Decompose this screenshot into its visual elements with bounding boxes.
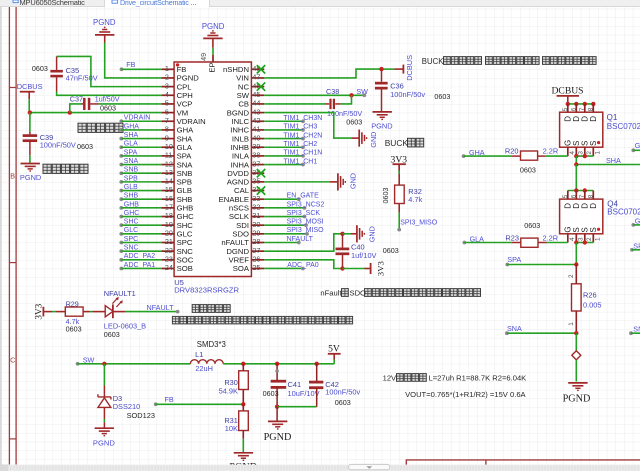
- capacitor C37: [81, 98, 99, 110]
- junction C40 top: [340, 232, 344, 236]
- svg-text:PGND: PGND: [264, 432, 292, 443]
- svg-text:SDO: SDO: [350, 288, 367, 297]
- svg-text:EP: EP: [208, 62, 217, 72]
- zone letter B: [10, 172, 15, 181]
- svg-text:BUCK: BUCK: [422, 57, 444, 66]
- note BUCK的地: [385, 138, 424, 148]
- U5 pin 45 SW: [237, 90, 265, 100]
- svg-text:S: S: [589, 227, 598, 232]
- svg-text:3V3: 3V3: [34, 303, 44, 319]
- svg-text:DVDD: DVDD: [227, 169, 249, 178]
- R20 value 2.2R: [543, 147, 559, 156]
- svg-text:0.005: 0.005: [583, 301, 602, 310]
- svg-text:INLA: INLA: [232, 152, 250, 161]
- svg-text:12: 12: [165, 159, 173, 168]
- svg-text:MPU6050Schematic: MPU6050Schematic: [20, 0, 86, 7]
- C40 value 1uf/10V: [351, 251, 377, 260]
- junction SW/C38: [349, 93, 353, 97]
- note nFault/SDO open drain: [320, 288, 480, 297]
- U5 pin 18 GHC: [161, 211, 194, 221]
- U5 pin 21 SPC: [161, 237, 193, 247]
- note 注意耐压值 (upper): [78, 123, 123, 132]
- svg-text:nFault: nFault: [320, 288, 342, 297]
- wire SPB: [121, 181, 161, 183]
- capacitor C41: [271, 381, 287, 407]
- LED footprint 0603: [104, 330, 120, 339]
- svg-text:24: 24: [165, 263, 173, 272]
- zone letter C: [10, 356, 15, 365]
- net label SPI3_MOSI: [287, 219, 324, 226]
- svg-text:1uf/50V: 1uf/50V: [95, 95, 120, 104]
- R26 pin 1 number: [568, 322, 575, 326]
- svg-text:5V: 5V: [328, 343, 340, 354]
- wire GHC: [121, 216, 161, 218]
- svg-text:GND: GND: [348, 173, 357, 189]
- C42 footprint 0603: [335, 398, 351, 407]
- wire R32 to SPI3_MISO: [397, 204, 401, 232]
- net label SPI3_SCK: [287, 210, 321, 217]
- wire VDRAIN: [121, 120, 161, 122]
- svg-text:nSHDN: nSHDN: [223, 65, 249, 74]
- wire C35 top to CPL pin3: [57, 56, 162, 86]
- svg-text:PGND: PGND: [563, 394, 591, 405]
- svg-text:30: 30: [252, 220, 260, 229]
- svg-text:27: 27: [252, 246, 260, 255]
- U5 pin 13 SNB: [161, 168, 192, 178]
- U5 pin 37 INHA: [231, 159, 265, 169]
- svg-text:SPI3_MOSI: SPI3_MOSI: [287, 219, 324, 226]
- svg-text:TIM1_CH2N: TIM1_CH2N: [283, 132, 322, 139]
- note SMD3*3: [197, 340, 226, 349]
- U5 designator: [174, 278, 184, 287]
- net label SPI3_MISO: [287, 227, 325, 234]
- capacitor C40: [336, 234, 350, 269]
- net label SHA: [606, 156, 621, 165]
- svg-text:47: 47: [252, 73, 260, 82]
- svg-text:INHA: INHA: [231, 160, 250, 169]
- svg-text:TIM1_CH3N: TIM1_CH3N: [283, 115, 322, 122]
- title block top-left corner: [406, 460, 640, 466]
- svg-text:SOA: SOA: [233, 264, 250, 273]
- U5 pin 20 GLC: [161, 229, 193, 239]
- resistor R32: [395, 185, 405, 203]
- bottom scrollbar: [0, 464, 640, 471]
- R29 value 4.7k: [66, 317, 80, 326]
- wire R30 to FB node: [242, 390, 244, 405]
- svg-text:SN: SN: [633, 325, 640, 334]
- svg-text:NC: NC: [238, 82, 250, 91]
- power DCBUS (left): [17, 82, 43, 99]
- junction SPA/R26: [574, 262, 578, 266]
- svg-text:BSC0702: BSC0702: [607, 207, 640, 216]
- net label EN_GATE: [287, 193, 319, 200]
- svg-text:PGND: PGND: [371, 122, 392, 131]
- U5 pin 49 EP: [199, 53, 216, 73]
- C36 value 100nF/50v: [390, 90, 425, 99]
- svg-text:SPI3_MISO: SPI3_MISO: [400, 220, 438, 227]
- svg-text:GHA: GHA: [177, 126, 195, 135]
- svg-text:C38: C38: [326, 87, 339, 96]
- wire VIN pin47 to DCBUS node: [264, 69, 381, 78]
- wire SPI3_MOSI: [264, 223, 308, 227]
- note 如果灯灭...: [172, 316, 352, 324]
- svg-text:23: 23: [165, 255, 173, 264]
- net label SW (pin45): [356, 87, 368, 97]
- svg-text:BUCK: BUCK: [385, 138, 409, 148]
- Q4 pin names D D D D / G S S S: [563, 203, 598, 233]
- svg-text:Q1: Q1: [607, 113, 618, 122]
- ground GND (BGND): [351, 130, 378, 148]
- svg-text:6: 6: [570, 194, 577, 198]
- svg-text:0603: 0603: [335, 398, 351, 407]
- U5 pin 38 INLA: [232, 151, 264, 161]
- wire SNC: [121, 250, 161, 252]
- C35 designator: [66, 66, 80, 75]
- wire SNA: [121, 164, 161, 166]
- svg-text:3: 3: [577, 237, 584, 241]
- svg-text:31: 31: [252, 211, 260, 220]
- svg-text:R26: R26: [583, 291, 597, 300]
- wire to 3V3 (VREF): [343, 268, 365, 270]
- U5 pin 19 SHC: [161, 220, 193, 230]
- svg-text:SOB: SOB: [177, 264, 193, 273]
- wire EN_GATE: [264, 197, 300, 201]
- capacitor C42: [309, 364, 323, 407]
- svg-text:FB: FB: [165, 395, 174, 404]
- net label TIM1_CH2N: [283, 132, 322, 139]
- svg-text:TIM1_CH3: TIM1_CH3: [283, 124, 317, 131]
- svg-text:GL: GL: [635, 216, 640, 225]
- svg-text:INLB: INLB: [232, 134, 249, 143]
- net label GHC (U5 left): [119, 210, 139, 219]
- U5 pin 31 SCLK: [229, 211, 264, 221]
- wire C37 branch: [70, 104, 81, 113]
- U5 pin 28 nFAULT: [221, 237, 264, 247]
- wire C39 to ground: [29, 155, 31, 163]
- wire SPA: [121, 155, 161, 157]
- resistor R26 (shunt): [572, 284, 582, 311]
- ground GND (DGND): [343, 225, 377, 242]
- svg-text:7: 7: [579, 194, 586, 198]
- LED value LED-0603_B: [104, 322, 146, 331]
- U5 pin 36 DVDD: [227, 168, 264, 178]
- wire SHC: [121, 224, 161, 226]
- svg-text:2: 2: [568, 274, 575, 278]
- svg-text:PGND: PGND: [93, 18, 116, 27]
- wire TIM1_CH3N: [264, 119, 305, 123]
- junction C41 bottom: [275, 405, 279, 409]
- svg-text:GND: GND: [367, 226, 376, 242]
- svg-text:INHB: INHB: [231, 143, 249, 152]
- svg-text:19: 19: [165, 220, 173, 229]
- svg-text:SW: SW: [237, 91, 250, 100]
- U5 pin 26 VREF: [228, 255, 264, 265]
- U5 pin 3 CPL: [161, 81, 192, 91]
- wire FB to R31: [242, 404, 244, 411]
- svg-text:26: 26: [252, 255, 260, 264]
- svg-text:0603: 0603: [383, 246, 399, 255]
- svg-text:L=27uh R1=88.7K R2=6.04K: L=27uh R1=88.7K R2=6.04K: [429, 373, 527, 382]
- svg-text:4: 4: [569, 151, 576, 155]
- wire BGND pin43 to GND: [264, 113, 351, 139]
- U5 pin 24 SOB: [161, 263, 193, 273]
- no-connect X pin46: [257, 82, 265, 90]
- U5 pin 25 SOA: [233, 263, 265, 273]
- wire DCBUS to C39: [29, 113, 31, 132]
- U5 pin 12 SNA: [161, 159, 193, 169]
- U5 pin 23 SOC: [161, 255, 193, 265]
- svg-text:SOD123: SOD123: [127, 411, 155, 420]
- net label SNC (U5 left): [119, 245, 138, 254]
- note VOUT formula: [405, 390, 526, 399]
- svg-text:SHA: SHA: [177, 134, 194, 143]
- svg-text:9: 9: [165, 133, 169, 142]
- wire SW pin45: [264, 94, 364, 96]
- wire SHA: [121, 138, 161, 140]
- svg-text:R29: R29: [66, 299, 79, 308]
- svg-text:8: 8: [587, 194, 594, 198]
- wire TIM1_CH2: [264, 145, 305, 149]
- wire ADC_PA1: [121, 267, 161, 269]
- wire C41 to C42 bottom: [277, 406, 317, 408]
- wire LED to NFAULT: [126, 310, 180, 314]
- net label GLB (U5 left): [119, 184, 138, 193]
- net label FB (divider): [154, 395, 174, 406]
- svg-text:5: 5: [562, 194, 569, 198]
- svg-text:2: 2: [586, 237, 593, 241]
- wire DCBUS to Q1 drains: [567, 103, 593, 105]
- wire CB pin44 to C38: [264, 103, 325, 105]
- wire Q4 source to SPA junction: [575, 243, 577, 265]
- svg-text:EN_GATE: EN_GATE: [287, 193, 319, 200]
- svg-text:DCBUS: DCBUS: [552, 85, 584, 96]
- svg-text:SNC: SNC: [177, 247, 194, 256]
- net label SHA (U5 left): [119, 132, 138, 141]
- wire diamond to PGND: [575, 360, 577, 382]
- C37 footprint 0603: [100, 104, 116, 113]
- U5 pin 35 AGND: [227, 177, 265, 187]
- junction Q1 drain bus: [566, 102, 596, 106]
- svg-text:L1: L1: [195, 350, 203, 359]
- wire VREF pin26 to C40 bottom: [264, 260, 342, 269]
- U5 pin 4 CPH: [161, 90, 193, 100]
- svg-text:GND: GND: [369, 132, 378, 148]
- power DCBUS (rotated, near C36): [394, 55, 414, 81]
- power 3V3 (rotated, left): [34, 303, 52, 319]
- junction C40 bottom: [340, 266, 344, 270]
- svg-text:DSS210: DSS210: [113, 402, 141, 411]
- net label SPB (U5 left): [119, 175, 138, 184]
- C41 value 10uF/10V: [288, 389, 320, 398]
- svg-text:SOC: SOC: [177, 256, 194, 265]
- net label SW (buck): [76, 355, 95, 365]
- R23 designator: [505, 234, 519, 243]
- svg-text:7: 7: [579, 107, 586, 111]
- svg-text:38: 38: [252, 151, 260, 160]
- svg-text:DCBUS: DCBUS: [17, 82, 43, 91]
- svg-text:nSCS: nSCS: [229, 204, 249, 213]
- junction C42 tap: [315, 362, 319, 366]
- wire FB: [156, 403, 244, 405]
- svg-text:GLA: GLA: [177, 143, 193, 152]
- C40 footprint 0603: [383, 246, 399, 255]
- junction Q4 drain bus: [574, 188, 587, 192]
- wire SNA: [507, 332, 576, 334]
- resistor R29: [65, 307, 83, 316]
- wire R26 to SNA: [575, 311, 577, 333]
- U5 pin 14 SPB: [161, 177, 192, 187]
- R23 value 2.2R: [543, 234, 559, 243]
- svg-text:3: 3: [165, 81, 169, 90]
- C37 designator: [70, 95, 83, 104]
- C36 footprint 0603: [434, 92, 450, 101]
- svg-text:14: 14: [165, 177, 173, 186]
- svg-text:4.7k: 4.7k: [408, 195, 422, 204]
- svg-text:40: 40: [252, 133, 260, 142]
- C38 value 100nF/50V: [327, 109, 362, 118]
- svg-text:13: 13: [165, 168, 173, 177]
- net label SHB (U5 left): [119, 193, 138, 202]
- wire TIM1_CH1N: [264, 154, 305, 158]
- wire TIM1_CH3: [264, 128, 305, 132]
- svg-text:15: 15: [165, 185, 173, 194]
- wire GLA: [121, 146, 161, 148]
- svg-text:SHC: SHC: [177, 221, 194, 230]
- net label NFAULT (LED): [147, 303, 175, 312]
- resistor R31: [239, 411, 249, 431]
- svg-text:TIM1_CH1: TIM1_CH1: [283, 158, 317, 165]
- svg-text:R23: R23: [505, 234, 519, 243]
- svg-text:C37: C37: [70, 95, 83, 104]
- R20 designator: [505, 147, 519, 156]
- capacitor C36: [375, 69, 388, 111]
- net label TIM1_CH1: [283, 158, 317, 165]
- svg-text:0603: 0603: [434, 92, 450, 101]
- junction DCBUS/C39: [28, 110, 32, 114]
- diode D3 DSS210 (schottky): [98, 386, 111, 420]
- R29 designator: [66, 299, 79, 308]
- ground PGND (C39): [20, 164, 41, 182]
- svg-text:10uF/10V: 10uF/10V: [288, 389, 320, 398]
- net label GLA (U5 left): [119, 141, 138, 150]
- U5 pin 16 SHB: [161, 194, 192, 204]
- wire R31 to PGND: [242, 431, 244, 453]
- svg-text:42: 42: [252, 116, 260, 125]
- node diamond (SNA sense): [572, 351, 581, 360]
- svg-text:20: 20: [165, 229, 173, 238]
- U5 pin 39 INHB: [231, 142, 265, 152]
- wire SPI3_NCS2: [264, 206, 306, 210]
- Q1 pin names D D D D / G S S S: [563, 116, 598, 146]
- note 12V L/R values: [383, 373, 527, 382]
- C36 designator: [390, 81, 404, 90]
- svg-text:47nF/50V: 47nF/50V: [66, 74, 98, 83]
- svg-text:TIM1_CH1N: TIM1_CH1N: [283, 150, 322, 157]
- R32 value 4.7k: [408, 195, 422, 204]
- wire D3 to PGND: [103, 419, 105, 428]
- transistor Q4 BSC0702 body: [560, 191, 603, 243]
- svg-text:32: 32: [252, 203, 260, 212]
- wire FB: [122, 68, 162, 70]
- wire ADC_PA2: [121, 259, 161, 261]
- C38 designator: [326, 87, 339, 96]
- Q4 pin numbers top 5 6 7 8: [562, 194, 595, 198]
- svg-text:12V: 12V: [383, 373, 397, 382]
- svg-text:SPA: SPA: [507, 255, 521, 264]
- svg-text:100nF/50v: 100nF/50v: [325, 388, 360, 397]
- svg-text:29: 29: [252, 229, 260, 238]
- svg-text:5: 5: [562, 107, 569, 111]
- C41 designator: [288, 380, 302, 389]
- R23 footprint 0603: [524, 221, 540, 230]
- svg-text:VCP: VCP: [177, 100, 193, 109]
- wire R29 to LED: [83, 311, 105, 313]
- svg-text:GH: GH: [635, 141, 640, 150]
- svg-text:6: 6: [570, 107, 577, 111]
- C40 designator: [351, 243, 365, 252]
- net label FB (pin1): [120, 60, 136, 71]
- svg-text:SPA: SPA: [177, 152, 193, 161]
- resistor R23: [512, 238, 547, 247]
- svg-text:GLC: GLC: [177, 230, 193, 239]
- net label SPI3_MISO (R32): [400, 220, 438, 227]
- svg-text:0603: 0603: [32, 64, 48, 73]
- D3 footprint SOD123: [127, 411, 155, 420]
- wire R30 branch: [242, 364, 244, 371]
- svg-text:1uf/10V: 1uf/10V: [351, 251, 377, 260]
- power DCBUS (above Q1): [552, 85, 584, 104]
- U5 pin 44 CB: [238, 99, 264, 109]
- svg-text:SNA: SNA: [507, 324, 522, 333]
- LED NFAULT1: [105, 297, 126, 318]
- wire C37 to VCP pin5: [99, 103, 162, 105]
- Q1 value BSC0702: [607, 122, 640, 131]
- C42 designator: [325, 380, 339, 389]
- svg-text:PGND: PGND: [20, 173, 41, 182]
- wire NFAULT: [264, 241, 300, 245]
- svg-text:0603: 0603: [66, 324, 82, 333]
- svg-text:VM: VM: [177, 108, 189, 117]
- U5 pin 17 GHB: [161, 203, 193, 213]
- U5 pin 42 INLC: [231, 116, 264, 126]
- wire PGND to pin2: [105, 43, 162, 78]
- U5 pin 7 VDRAIN: [161, 116, 205, 126]
- svg-text:CAL: CAL: [234, 186, 250, 195]
- svg-text:CPH: CPH: [177, 91, 193, 100]
- capacitor C39: [23, 132, 38, 156]
- svg-text:10K: 10K: [225, 424, 238, 433]
- U5 pin 40 INLB: [232, 133, 264, 143]
- wire GLB: [121, 190, 161, 192]
- svg-text:nFAULT: nFAULT: [221, 238, 249, 247]
- svg-text:SMD3*3: SMD3*3: [197, 340, 226, 349]
- R29 footprint 0603: [66, 324, 82, 333]
- U5 pin 9 SHA: [161, 133, 193, 143]
- R26 designator: [583, 291, 597, 300]
- Q1 pin numbers bottom 4 3 2 1: [569, 151, 602, 155]
- svg-text:4: 4: [165, 90, 169, 99]
- wire Q1 source bus: [576, 155, 593, 157]
- svg-text:NFAULT: NFAULT: [147, 303, 175, 312]
- svg-text:...: ...: [191, 0, 197, 7]
- junction FB/R31: [241, 402, 245, 406]
- svg-text:0603: 0603: [520, 166, 536, 175]
- svg-text:37: 37: [252, 159, 260, 168]
- svg-text:D: D: [589, 116, 598, 122]
- net label GHB (U5 left): [119, 201, 139, 210]
- svg-text:100nF/50v: 100nF/50v: [390, 90, 425, 99]
- net label GLB (cut at edge): [631, 216, 640, 227]
